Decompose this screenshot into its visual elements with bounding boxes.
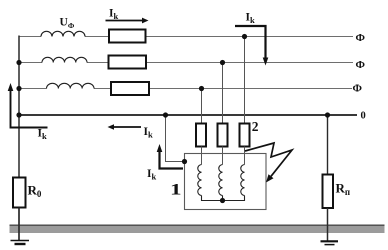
node neutral left <box>16 112 21 117</box>
arrow Ik fault current bent top-right <box>235 26 268 66</box>
arrow Ik phase current top-left <box>106 18 149 24</box>
svg-text:1: 1 <box>170 181 182 199</box>
wire winding2 to star point <box>222 196 224 201</box>
node phase2 left <box>16 60 21 65</box>
fuse F1 <box>196 124 206 147</box>
arrow Ik motor frame up <box>157 144 183 169</box>
resistor Rp <box>323 175 334 209</box>
wire left bus vertical <box>18 36 20 178</box>
arrow Ik return current mid left-pointing <box>108 124 142 129</box>
inductor L1 (source winding phase 1) <box>41 31 85 36</box>
node phase1 tap <box>242 34 247 39</box>
wire phase line 3 <box>19 88 352 90</box>
arrow Ik return current up left <box>8 83 48 128</box>
earth bar <box>10 225 385 234</box>
wire phase line 1 <box>19 36 353 38</box>
node star point <box>220 198 225 203</box>
wire drop phase3 to fuse 1 <box>201 89 203 124</box>
node phase3 tap <box>199 86 204 91</box>
node neutral to Rp <box>325 112 330 117</box>
wire neutral line 0 <box>19 114 357 116</box>
svg-text:Ф: Ф <box>356 59 366 71</box>
resistor R0 <box>13 178 26 208</box>
inductor L3 (source winding phase 3) <box>47 83 95 88</box>
fuse F2 <box>218 124 228 147</box>
wire Rp to ground <box>327 208 329 241</box>
svg-text:2: 2 <box>252 119 259 134</box>
wire fuse F2 to motor <box>222 147 224 165</box>
inductor L2 (source winding phase 2) <box>42 57 87 62</box>
ground symbol left <box>11 241 30 245</box>
resistor line impedance phase 2 <box>109 56 147 69</box>
wire drop phase1 to fuse 3 <box>244 37 246 124</box>
wire star bus <box>202 196 245 201</box>
resistor line impedance phase 3 <box>111 82 149 95</box>
svg-text:Ф: Ф <box>356 32 366 44</box>
node phase2 tap <box>220 60 225 65</box>
wire fuse F3 to motor <box>244 147 246 165</box>
svg-text:0: 0 <box>361 111 366 122</box>
motor winding W3 <box>241 165 245 196</box>
resistor line impedance phase 1 <box>109 30 146 43</box>
ground symbol right <box>321 241 339 244</box>
wire phase line 2 <box>19 62 353 64</box>
motor winding W1 <box>198 165 202 196</box>
lightning fault arrow <box>245 143 292 183</box>
node phase3 left <box>16 86 21 91</box>
fuse F3 <box>240 124 250 147</box>
wire drop neutral to Rp <box>327 115 329 175</box>
node motor frame <box>182 159 187 164</box>
wire neutral to motor frame <box>166 115 185 162</box>
node neutral to motor <box>163 112 168 117</box>
motor housing box 1 <box>185 154 267 210</box>
svg-text:Ф: Ф <box>353 83 363 95</box>
motor winding W2 <box>219 165 223 196</box>
wire R0 to ground <box>18 208 20 241</box>
wire drop phase2 to fuse 2 <box>222 63 224 124</box>
wire fuse F1 to motor <box>201 147 203 165</box>
